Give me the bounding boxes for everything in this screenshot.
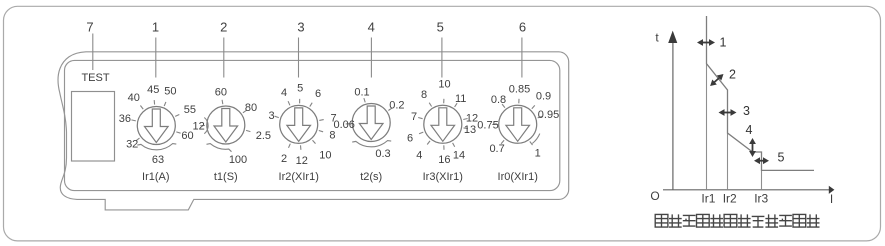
svg-text:0.75: 0.75 [477,119,498,131]
svg-text:2: 2 [729,68,736,82]
marker 3 [719,109,737,116]
rotary dial 1 Ir1(A) [119,84,196,166]
svg-text:0.7: 0.7 [489,143,504,155]
svg-text:7: 7 [86,19,93,34]
svg-text:0.8: 0.8 [491,94,506,106]
svg-text:12: 12 [466,112,478,124]
svg-text:55: 55 [184,104,196,116]
callout 4 [368,19,375,77]
svg-text:1: 1 [535,147,541,159]
svg-text:12: 12 [192,121,204,133]
callout 2 [220,19,227,77]
svg-text:2.5: 2.5 [256,130,271,142]
svg-text:t1(S): t1(S) [214,171,238,183]
svg-text:8: 8 [329,129,335,141]
svg-text:I: I [830,192,833,206]
svg-text:Ir0(XIr1): Ir0(XIr1) [498,171,538,183]
svg-text:6: 6 [519,19,526,34]
svg-text:8: 8 [421,89,427,101]
svg-text:40: 40 [128,92,140,104]
svg-text:4: 4 [746,123,753,137]
svg-text:3: 3 [297,19,304,34]
marker 2 [708,71,726,88]
device body outline [58,52,569,210]
svg-text:10: 10 [319,150,331,162]
svg-text:4: 4 [368,19,375,34]
svg-text:Ir1(A): Ir1(A) [142,171,170,183]
svg-text:13: 13 [464,124,476,136]
svg-text:Ir2(XIr1): Ir2(XIr1) [279,171,319,183]
svg-text:O: O [650,189,659,203]
dial 2 paren tick [204,118,208,134]
protection characteristic curve [707,16,815,170]
svg-text:3: 3 [743,104,750,118]
svg-text:0.2: 0.2 [389,99,404,111]
Ir3 vertical [761,170,763,189]
svg-text:36: 36 [119,113,131,125]
svg-text:100: 100 [229,154,247,166]
svg-text:2: 2 [281,153,287,165]
svg-text:7: 7 [411,111,417,123]
rotary dial 4 t2(s) [333,86,404,160]
svg-text:Ir3: Ir3 [754,192,768,206]
marker 1 [697,39,715,46]
svg-text:6: 6 [315,88,321,100]
svg-text:t2(s): t2(s) [360,171,382,183]
callout 5 [437,19,444,77]
Ir1 vertical [706,64,708,190]
rotary dial 3 Ir2(XIr1) [268,82,336,167]
svg-text:6: 6 [407,132,413,144]
svg-text:5: 5 [437,19,444,34]
rotary dial 6 Ir0(XIr1) [477,83,559,159]
dial 6 arc mark [532,134,540,144]
marker 5 [754,157,769,164]
Ir2 vertical [727,133,729,190]
svg-text:5: 5 [778,151,785,165]
graph y-axis t [655,31,677,191]
svg-text:TEST: TEST [81,72,109,84]
svg-text:11: 11 [455,93,466,105]
callout 3 [297,19,304,77]
svg-text:4: 4 [416,150,422,162]
svg-text:60: 60 [215,86,227,98]
svg-text:63: 63 [152,154,164,166]
svg-text:12: 12 [296,155,308,167]
svg-text:3: 3 [268,110,274,122]
test button [72,92,115,162]
svg-text:16: 16 [438,154,450,166]
svg-text:2: 2 [220,19,227,34]
rotary dial 5 Ir3(XIr1) [407,78,478,166]
callout 7 [86,19,93,70]
svg-text:14: 14 [453,150,465,162]
adjustment panel face [65,60,560,190]
svg-text:Ir3(XIr1): Ir3(XIr1) [423,171,463,183]
svg-text:45: 45 [147,84,159,96]
svg-text:32: 32 [126,138,138,150]
svg-text:5: 5 [297,82,303,94]
svg-text:0.85: 0.85 [509,83,530,95]
rotary dial 2 t1(S) [192,86,271,166]
svg-text:10: 10 [438,78,450,90]
svg-text:50: 50 [164,86,176,98]
callout 6 [519,19,526,77]
svg-text:1: 1 [152,19,159,34]
marker 4 [749,138,756,157]
graph x-axis I [663,186,834,206]
svg-text:0.95: 0.95 [538,109,559,121]
svg-text:0.3: 0.3 [375,148,390,160]
svg-text:Ir2: Ir2 [723,192,737,206]
svg-text:Ir1: Ir1 [701,192,715,206]
caption: intelligent trip unit protection characteristic curve [655,214,819,227]
svg-text:0.9: 0.9 [536,91,551,103]
svg-text:4: 4 [281,87,287,99]
svg-text:1: 1 [720,36,727,50]
svg-text:0.1: 0.1 [354,86,369,98]
svg-text:0.06: 0.06 [333,119,354,131]
svg-text:80: 80 [245,102,257,114]
callout 1 [152,19,159,77]
